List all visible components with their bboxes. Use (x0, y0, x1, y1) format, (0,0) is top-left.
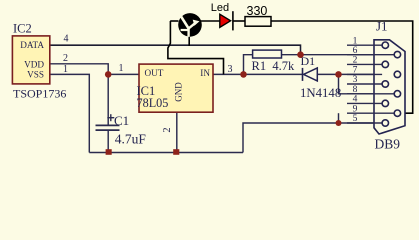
junction at pin5/pin9 node (336, 120, 342, 126)
pin 2 circle (382, 61, 388, 67)
pin 7 circle (394, 71, 400, 77)
pin 1 stub (347, 44, 382, 46)
svg-text:1N4148: 1N4148 (300, 86, 341, 100)
svg-text:DB9: DB9 (375, 137, 401, 152)
svg-text:Led: Led (211, 2, 229, 14)
svg-text:1: 1 (63, 64, 68, 75)
svg-text:4: 4 (353, 95, 358, 105)
svg-text:1: 1 (353, 36, 358, 46)
junction at IN/R1/D1 node (240, 71, 247, 78)
junction at DATA/R1/pin6 node (297, 51, 304, 58)
pin 7 stub (347, 73, 382, 75)
svg-text:4.7uF: 4.7uF (115, 132, 147, 147)
svg-text:OUT: OUT (145, 68, 164, 78)
pin 8 stub (347, 93, 394, 95)
wire: VSS from IC2 pin 1 down the left side to bottom rail (49, 74, 89, 152)
svg-text:330: 330 (247, 4, 268, 18)
junction at GND/rail node (173, 149, 179, 155)
pin 1 circle (382, 42, 388, 48)
svg-text:78L05: 78L05 (137, 96, 169, 110)
svg-text:4: 4 (64, 33, 69, 44)
junction at C1/rail node (106, 149, 112, 155)
pin 4 circle (382, 100, 388, 106)
wire: IC1 IN pin 3 to junction (213, 73, 244, 75)
svg-text:2: 2 (353, 56, 358, 66)
transistor (IR driver, unlabelled) (170, 13, 220, 46)
svg-text:2: 2 (162, 128, 173, 133)
DB9 pin stubs (347, 45, 394, 123)
wire: junction across to DB9 pin 6 (301, 54, 395, 56)
svg-text:VDD: VDD (24, 60, 44, 70)
pin 6 stub (347, 54, 394, 56)
LED Led (220, 11, 245, 30)
wire: 330 to right edge, down, into DB9 pin 9 (271, 21, 413, 113)
pin 8 circle (394, 91, 400, 97)
pin 9 circle (394, 110, 400, 116)
DB9 pin numbers (353, 36, 358, 124)
wire: pin5/pin9 tie vertical (338, 113, 340, 123)
wire: rail right end up and across to DB9 pin 5 (243, 123, 382, 153)
svg-text:C1: C1 (114, 113, 129, 128)
pin 6 circle (394, 51, 400, 57)
svg-text:3: 3 (228, 64, 233, 75)
svg-text:GND: GND (174, 82, 184, 102)
wire: IC1 GND pin 2 to rail (176, 112, 178, 153)
junction at VSS/OUT/C1 node (105, 71, 112, 78)
pin 3 circle (382, 81, 388, 87)
svg-text:J1: J1 (376, 19, 388, 34)
pin 9 stub (347, 112, 394, 114)
svg-text:IN: IN (200, 68, 210, 78)
wire: junction to D1 cathode (244, 73, 303, 75)
svg-text:VSS: VSS (27, 70, 44, 80)
svg-text:9: 9 (353, 104, 358, 114)
svg-text:5: 5 (353, 114, 358, 124)
pin 4 stub (347, 102, 382, 104)
connector J1 DB9 body (374, 40, 405, 134)
pin 2 stub (347, 63, 382, 65)
pin 5 circle (382, 120, 388, 126)
svg-text:TSOP1736: TSOP1736 (13, 86, 66, 100)
svg-text:DATA: DATA (20, 40, 44, 50)
svg-text:2: 2 (63, 53, 68, 64)
capacitor C1 (polarized) (96, 125, 120, 130)
svg-text:1: 1 (119, 63, 124, 74)
svg-text:IC2: IC2 (13, 22, 32, 36)
wire: junction to IC1 OUT pin 1 (108, 73, 139, 75)
svg-text:R1 4.7k: R1 4.7k (252, 59, 295, 73)
pin 5 stub (347, 122, 382, 124)
resistor R1 (253, 50, 282, 58)
plus sign of C1 (107, 114, 114, 121)
wire: transistor base drop to IN node (with hop over DATA wire) (168, 21, 224, 74)
svg-text:6: 6 (353, 46, 358, 56)
wire: junction down through C1 to rail (107, 74, 109, 152)
wire: D1 anode to junction at pin 7 row (317, 73, 382, 75)
wire: DATA net from IC2 pin 4 to corner above R1 (49, 45, 301, 55)
pin 3 stub (347, 83, 382, 85)
svg-text:8: 8 (353, 85, 358, 95)
wire: VDD from IC2 pin 2 across and down to the +5V junction node (49, 64, 108, 75)
wire: bottom ground rail (89, 152, 243, 154)
IC IC1 78L05 body (139, 64, 213, 112)
diode D1 1N4148 (303, 68, 318, 81)
svg-text:3: 3 (353, 75, 358, 85)
wire: pin7/pin8 tie down (339, 74, 394, 93)
svg-text:7: 7 (353, 66, 358, 76)
resistor 330 (245, 17, 271, 27)
IC IC2 TSOP1736 body (12, 36, 49, 84)
DB9 pin circles (382, 42, 401, 126)
junction at D1/pin7/pin8 node (335, 71, 342, 78)
wire: junction up to R1 left terminal (244, 55, 253, 75)
wire: R1 right terminal to junction at DATA drop (282, 54, 301, 56)
